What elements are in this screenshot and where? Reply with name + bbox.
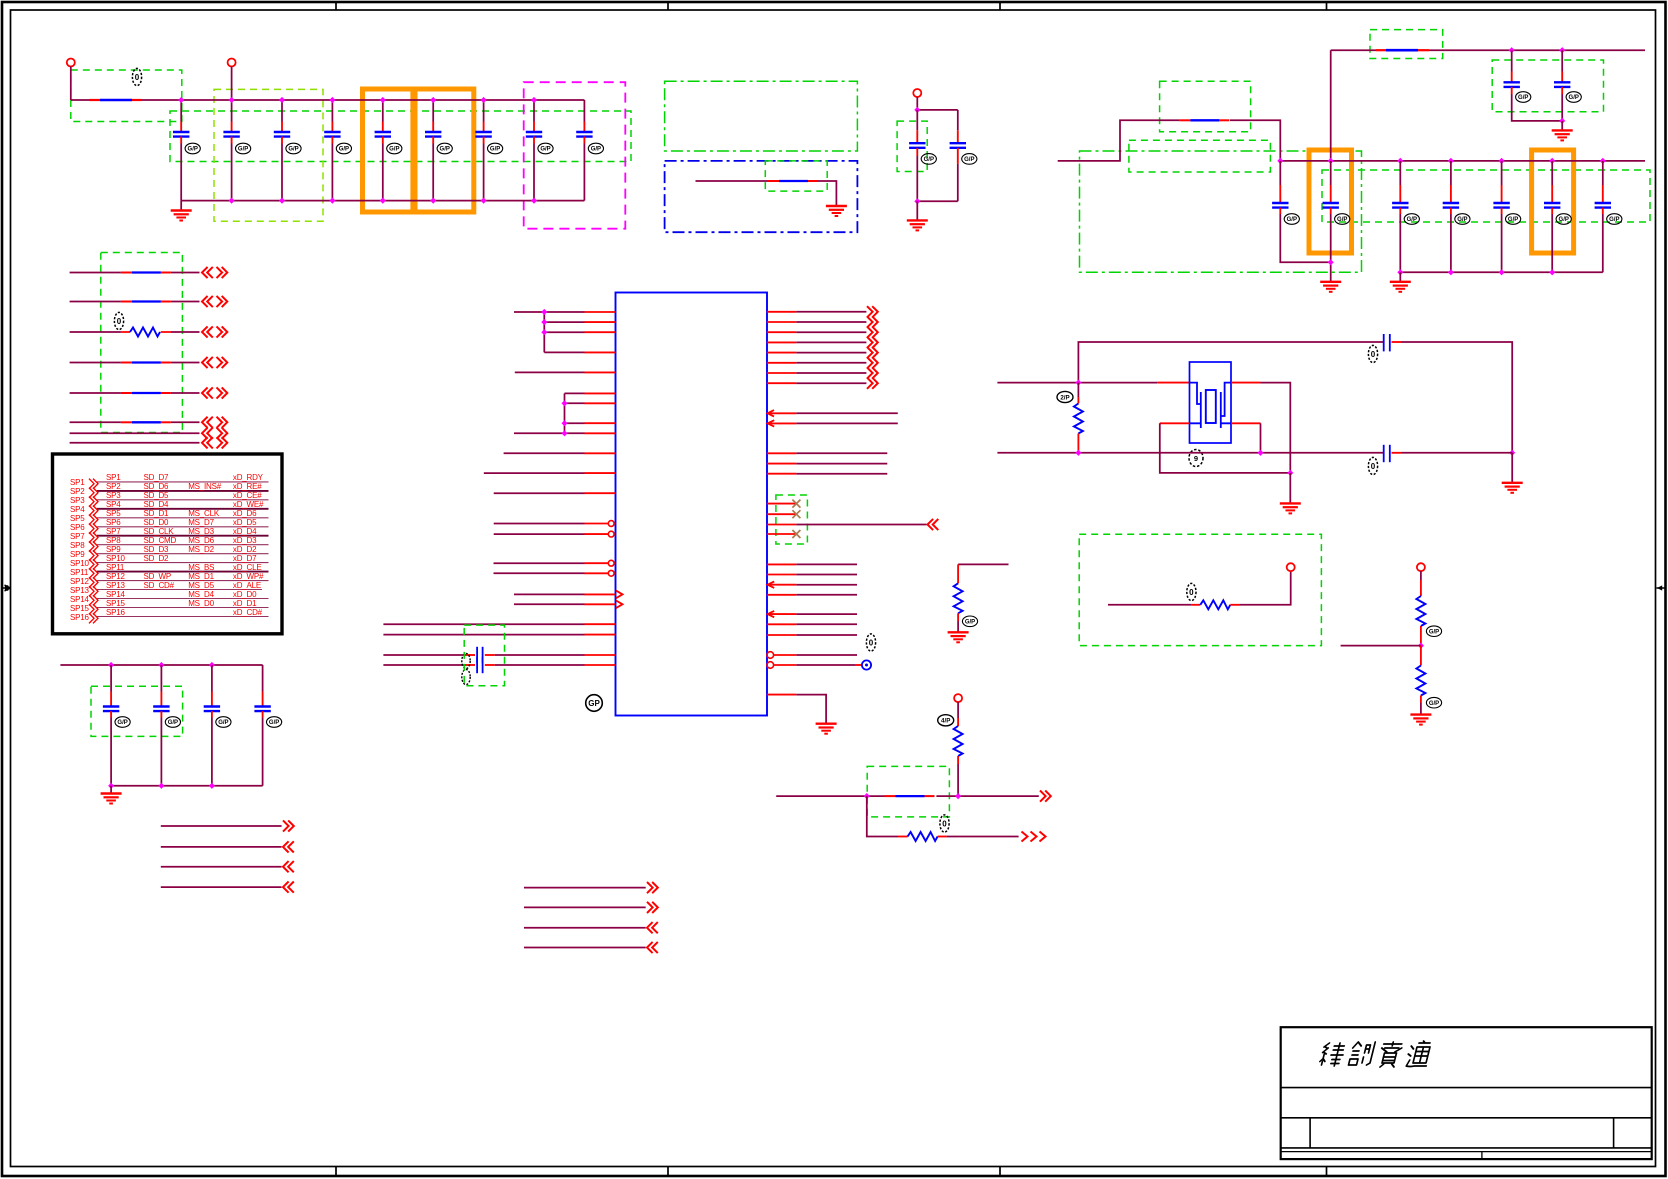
series cap CX1 [1384, 334, 1401, 351]
svg-text:GP: GP [588, 699, 600, 708]
svg-text:MS_D6: MS_D6 [188, 536, 214, 545]
left centre arrow [2, 585, 11, 591]
chevrons L1 [202, 267, 213, 278]
net row SP14 [70, 590, 269, 606]
orange box E2 [415, 89, 474, 212]
pin L8 [565, 422, 616, 424]
capacitor C10 [909, 110, 936, 201]
svg-text:xD_RE#: xD_RE# [233, 482, 262, 491]
svg-text:xD_D4: xD_D4 [233, 527, 257, 536]
pin L14 [494, 531, 614, 537]
blue dash-dot box G [665, 161, 858, 232]
pin R20 [767, 594, 857, 596]
pin R26 bubble to testpoint [767, 662, 862, 669]
ground stem xtal right [1511, 453, 1513, 483]
svg-text:MS_D0: MS_D0 [188, 599, 214, 608]
svg-text:SP2: SP2 [106, 482, 121, 491]
capacitor C9 [576, 100, 603, 201]
wire xtal right leg [1261, 383, 1291, 473]
ferrite bead FB2 [768, 180, 818, 182]
svg-text:MS_INS#: MS_INS# [188, 482, 222, 491]
green dashed box beads [101, 253, 183, 433]
svg-text:SP8: SP8 [70, 541, 85, 550]
pin L19 [383, 623, 615, 625]
svg-text:xD_WP#: xD_WP# [233, 572, 264, 581]
junction dots bottom bus1 [229, 198, 235, 204]
pin L16 [494, 570, 615, 576]
svg-text:SP10: SP10 [70, 559, 90, 568]
TOPRIGHT bank [1058, 30, 1650, 292]
svg-text:xD_CE#: xD_CE# [233, 491, 262, 500]
wire vr bottom [917, 200, 958, 202]
BOTARROWS [161, 820, 658, 953]
wire xtal bottom right [1401, 452, 1512, 454]
stepped wire [1058, 120, 1281, 161]
ground c15 [1320, 282, 1341, 292]
net row SP9 [70, 545, 269, 561]
resistor RX1 [1074, 383, 1083, 453]
stamp GP RD2 [1426, 697, 1441, 708]
RPULL resistor circuits [776, 534, 1441, 841]
stamp oval RP3 [940, 815, 949, 832]
junction dot xtal gnd [1287, 470, 1293, 476]
wire mid net 2 [524, 906, 646, 908]
stamp GP xtal [1189, 450, 1203, 467]
net row SP15 [70, 599, 269, 615]
chevrons L2 [202, 296, 213, 307]
wire bl net 3 [161, 866, 282, 868]
ferrite bead FB1 on bus1 [89, 99, 142, 101]
pin L9 [514, 432, 616, 434]
wire top bus1 [71, 99, 585, 101]
wire net row1 [776, 795, 1039, 797]
ground stem vr [916, 201, 918, 220]
capacitor C19 [1544, 161, 1571, 272]
ground divider [1410, 715, 1431, 725]
svg-text:MS_BS: MS_BS [188, 563, 214, 572]
wire xtal right lower leg [1260, 423, 1262, 453]
svg-text:xD_D1: xD_D1 [233, 599, 257, 608]
wire net row2 [947, 836, 1019, 838]
capacitor CB1 [103, 665, 130, 786]
wire bottom bus2 [1400, 271, 1603, 273]
pin R16 no-connect [767, 530, 801, 538]
wire left bus b [564, 393, 566, 433]
title divider v3 [1481, 1152, 1483, 1160]
power terminal P1 [67, 59, 75, 67]
svg-text:SD_D6: SD_D6 [144, 482, 170, 491]
svg-text:9: 9 [1194, 454, 1198, 463]
green dashed box bl [91, 686, 183, 736]
wire mid net 1 [524, 887, 646, 889]
zone tick top 3 [999, 2, 1001, 10]
svg-text:SP8: SP8 [106, 536, 121, 545]
svg-text:xD_D2: xD_D2 [233, 545, 257, 554]
resistor RP1 [954, 564, 963, 632]
net row SP7 [70, 527, 269, 543]
junction dots bl bottom [108, 783, 114, 789]
green dashed box L [1160, 81, 1251, 132]
wire mid net 4 [524, 947, 646, 949]
title divider h1 [1281, 1087, 1652, 1089]
chevron bl net 3 [283, 861, 294, 872]
capacitor CB3 [204, 665, 231, 786]
ground bus2 [1390, 282, 1411, 292]
wire rpull1 top [958, 563, 1008, 565]
VRCAPS two caps x917 [897, 89, 977, 230]
stamp GP RD1 [1426, 626, 1441, 637]
resistor RS1 [1191, 600, 1240, 609]
capacitor C8 [526, 100, 553, 201]
svg-text:xD_CLE: xD_CLE [233, 563, 262, 572]
pin R9 input arrow [768, 410, 898, 416]
svg-text:SP13: SP13 [106, 581, 126, 590]
ground tr caps [1552, 130, 1573, 140]
svg-text:xD_D3: xD_D3 [233, 536, 257, 545]
capacitor CB2 [153, 665, 180, 786]
stamp GP [586, 695, 603, 712]
svg-text:SP15: SP15 [70, 604, 90, 613]
capacitor C11 [950, 110, 977, 201]
green dashed box A [71, 70, 182, 122]
green dashed box J [1370, 30, 1443, 59]
capacitor C1 [173, 100, 200, 201]
magenta dashed box D [524, 82, 626, 229]
pin L13 [494, 521, 614, 527]
svg-text:SP10: SP10 [106, 554, 126, 563]
svg-text:SP9: SP9 [106, 545, 121, 554]
pin L7 [565, 402, 616, 404]
power terminal P3 [913, 89, 921, 97]
orange box E1 [363, 89, 413, 212]
pin R6 [767, 357, 878, 368]
stamp oval RP2 [938, 715, 954, 726]
wire xtal bottom [997, 452, 1383, 454]
green dashed box series caps [464, 625, 504, 686]
orange box O1 [1309, 150, 1352, 253]
chevron bl net 4 [283, 882, 294, 893]
junction dot tr caps [1559, 118, 1565, 124]
pin R8 [767, 378, 878, 389]
ground stem tr caps [1561, 121, 1563, 130]
svg-text:SP12: SP12 [70, 577, 90, 586]
ferrite bead L4 [121, 362, 171, 364]
pin L4 [544, 351, 615, 353]
svg-text:xD_ALE: xD_ALE [233, 581, 261, 590]
wire xtal left lower leg [1160, 423, 1291, 473]
stamp GP RP1 [962, 616, 977, 627]
stamp oval R-L3 [114, 312, 123, 329]
svg-text:SP16: SP16 [106, 608, 126, 617]
capacitor C12 [1504, 50, 1563, 121]
wire left bus a [543, 312, 545, 352]
ICMAIN [383, 293, 938, 734]
pin L3 [544, 331, 615, 333]
svg-text:SP4: SP4 [106, 500, 121, 509]
pin L12 [494, 492, 616, 494]
pin L11 [484, 472, 616, 474]
chevrons L7 [202, 428, 213, 439]
green dashed box H [765, 161, 827, 191]
stamp oval CX1 [1368, 345, 1377, 362]
svg-text:xD_CD#: xD_CD# [233, 608, 263, 617]
wire bl top bus [60, 664, 262, 666]
pin R17 long net [767, 519, 939, 530]
svg-text:SD_WP: SD_WP [144, 572, 171, 581]
green dash-dot box N [1080, 151, 1362, 272]
ground stem xtal [1289, 473, 1291, 504]
logo char zi [1377, 1042, 1403, 1067]
wire xtal top right [1401, 342, 1512, 453]
ferrite bead FB5 [885, 795, 935, 797]
zone tick top 4 [1326, 2, 1328, 10]
pin L21 [383, 647, 615, 663]
green dashed box B around cap plates [170, 111, 631, 162]
logo char chuang [1349, 1042, 1376, 1065]
svg-text:SD_D3: SD_D3 [144, 545, 170, 554]
wire bus2 [1280, 160, 1645, 162]
wire in box G [696, 181, 837, 205]
net row SP6 [70, 518, 269, 534]
ground vr [907, 220, 928, 230]
chevron bl net 1 [283, 820, 294, 831]
green dashed box nc pins [776, 495, 808, 544]
chevron bl net 2 [283, 841, 294, 852]
capacitor C17 [1443, 161, 1470, 272]
zone tick bottom 2 [667, 1167, 669, 1177]
pin R18 [767, 563, 857, 565]
pin L2 [544, 321, 615, 323]
wire series R left [1108, 604, 1191, 606]
svg-text:MS_CLK: MS_CLK [188, 509, 220, 518]
chevrons L5 [202, 387, 213, 398]
svg-text:SP5: SP5 [70, 514, 85, 523]
chevron mid net 1 [647, 882, 658, 893]
svg-text:SP1: SP1 [70, 478, 85, 487]
stamp oval CX2 [1368, 457, 1377, 474]
junction dot xtal in [1075, 380, 1081, 386]
capacitor CB4 [254, 665, 281, 786]
capacitor C16 [1392, 161, 1419, 272]
stamp oval FB1 [132, 68, 141, 85]
title divider v2 [1613, 1118, 1615, 1148]
ferrite bead FB4 [1179, 119, 1229, 121]
wire row L3 [70, 331, 200, 333]
ferrite bead L6 [121, 421, 171, 423]
wire series R right [1240, 571, 1291, 605]
junction dot c15 [1328, 259, 1334, 265]
svg-text:SD_CD#: SD_CD# [144, 581, 175, 590]
svg-text:SP7: SP7 [106, 527, 121, 536]
wire row L4 [70, 362, 200, 364]
ground ic [816, 724, 837, 734]
wire xtal top loop [1078, 342, 1383, 383]
wire P3 stem [916, 97, 918, 110]
resistor R-L3 [121, 331, 171, 333]
capacitor C2 [223, 100, 250, 201]
net row SP2 [70, 482, 269, 498]
pin L10 [504, 452, 616, 454]
svg-text:SP12: SP12 [106, 572, 126, 581]
pin R4 [767, 337, 878, 348]
zone tick top 2 [667, 2, 669, 10]
wire xtal in [997, 382, 1157, 384]
chevrons L8 [202, 437, 213, 448]
wire bl net 4 [161, 886, 282, 888]
svg-text:SP15: SP15 [106, 599, 126, 608]
svg-text:SP6: SP6 [106, 518, 121, 527]
wire row L8 [70, 442, 200, 444]
wire row L2 [70, 301, 200, 303]
wire bl bottom bus [111, 785, 263, 787]
svg-text:SP13: SP13 [70, 586, 90, 595]
power terminal P5 [1287, 563, 1295, 571]
svg-text:SP7: SP7 [70, 532, 85, 541]
wire bottom bus1 [181, 200, 584, 202]
ground box G [826, 206, 847, 216]
pin L18 [514, 601, 623, 609]
svg-text:SD_D2: SD_D2 [144, 554, 170, 563]
pin L20 [383, 634, 615, 636]
SPTABLE [53, 454, 283, 634]
net row SP13 [70, 581, 262, 597]
net row SP4 [70, 500, 269, 516]
junction dots bus1 [178, 97, 184, 103]
svg-text:2/P: 2/P [1060, 394, 1069, 401]
power terminal P6 [1417, 563, 1425, 571]
svg-text:SD_CLK: SD_CLK [144, 527, 175, 536]
chevrons L6 [202, 417, 213, 428]
wire row L6 [70, 421, 200, 423]
svg-text:SP14: SP14 [106, 590, 126, 599]
junction dot vr top [914, 107, 920, 113]
svg-text:MS_D2: MS_D2 [188, 545, 214, 554]
svg-text:xD_RDY: xD_RDY [233, 473, 264, 482]
svg-text:xD_D6: xD_D6 [233, 509, 257, 518]
svg-text:SP2: SP2 [70, 487, 85, 496]
svg-text:MS_D1: MS_D1 [188, 572, 214, 581]
pin R7 [767, 367, 878, 378]
net row SP8 [70, 536, 269, 552]
testpoint donut [862, 660, 871, 669]
capacitor C5 [375, 100, 402, 201]
ground stem bus2 [1399, 272, 1401, 282]
power terminal P2 [228, 59, 236, 67]
pin L5 [515, 371, 616, 373]
chevron net row1 [1040, 791, 1051, 802]
ground RP1 [948, 632, 969, 642]
ground stem bank1 [180, 201, 182, 211]
pin R1 [767, 306, 878, 317]
power terminal P4 [954, 694, 962, 702]
junction dots left bus b [562, 400, 568, 406]
wire elbow row2 [867, 796, 898, 836]
resistor RD2 [1416, 646, 1425, 715]
wire vr top [917, 109, 958, 111]
green dashed box I [897, 121, 927, 171]
pin R25 bubble [767, 652, 857, 659]
IC U1 body [616, 293, 768, 716]
svg-text:SP14: SP14 [70, 595, 90, 604]
junction dots left bus a [541, 309, 547, 315]
ground bl [101, 794, 122, 804]
chevron mid net 3 [647, 922, 658, 933]
logo char wei [1319, 1043, 1346, 1066]
pin R11 [767, 452, 888, 454]
svg-text:SP16: SP16 [70, 613, 90, 622]
net row SP12 [70, 572, 269, 588]
wire row L5 [70, 392, 200, 394]
green dashed box bead2 [867, 766, 949, 817]
resistor RP2 [954, 702, 963, 796]
svg-text:SD_CMD: SD_CMD [144, 536, 177, 545]
capacitor C15 [1323, 161, 1350, 282]
capacitor C18 [1493, 161, 1520, 272]
yellow-green dashed box C [214, 89, 323, 221]
net row SP10 [70, 554, 269, 570]
logo Wistron characters [1319, 1041, 1433, 1067]
wire row L7 [70, 432, 200, 434]
capacitor C14 [1272, 161, 1331, 262]
wire row L1 [70, 272, 200, 274]
pin R5 [767, 347, 878, 358]
svg-text:SP5: SP5 [106, 509, 121, 518]
zone tick bottom 1 [335, 1167, 337, 1177]
wire bl net 1 [161, 825, 282, 827]
pin R24 [767, 634, 857, 636]
stamp oval right [866, 634, 875, 651]
green dashed box plates row [1322, 170, 1650, 222]
capacitor C6 [425, 100, 452, 201]
BLCAPS bottom-left caps [60, 662, 281, 804]
svg-text:SP9: SP9 [70, 550, 85, 559]
svg-text:SP4: SP4 [70, 505, 85, 514]
svg-text:SP11: SP11 [70, 568, 89, 577]
ground xtal [1280, 503, 1301, 513]
chevrons L3 [202, 326, 213, 337]
net row SP1 [70, 473, 269, 489]
title divider h4 [1281, 1151, 1652, 1153]
wire P2 stem [231, 67, 233, 101]
svg-text:xD_WE#: xD_WE# [233, 500, 264, 509]
junction dots net row1 [864, 793, 870, 799]
zone tick bottom 4 [1326, 1167, 1328, 1177]
svg-text:xD_D7: xD_D7 [233, 554, 257, 563]
green dashed box series R [1079, 534, 1321, 645]
stamp oval RX1 [1057, 391, 1073, 402]
svg-text:SP1: SP1 [106, 473, 121, 482]
svg-text:SD_D0: SD_D0 [144, 518, 170, 527]
net row SP3 [70, 491, 269, 507]
series cap CX2 [1384, 445, 1401, 462]
ferrite bead L2 [121, 301, 171, 303]
wire divider tap [1341, 645, 1421, 647]
capacitor C4 [324, 100, 351, 201]
pin R14 no-connect [767, 500, 801, 508]
chevrons L4 [202, 357, 213, 368]
wire P1 stem [70, 67, 72, 101]
wire mid net 3 [524, 927, 646, 929]
green dashed box M [1129, 140, 1271, 172]
net row SP16 [70, 608, 269, 624]
svg-text:SP6: SP6 [70, 523, 85, 532]
pin R22 input arrow [768, 611, 857, 617]
zone tick top 1 [335, 2, 337, 10]
logo char tong [1405, 1041, 1432, 1067]
ground bank1 [171, 211, 192, 221]
pin R3 [767, 327, 878, 338]
junction dots bus2 [1277, 158, 1283, 164]
